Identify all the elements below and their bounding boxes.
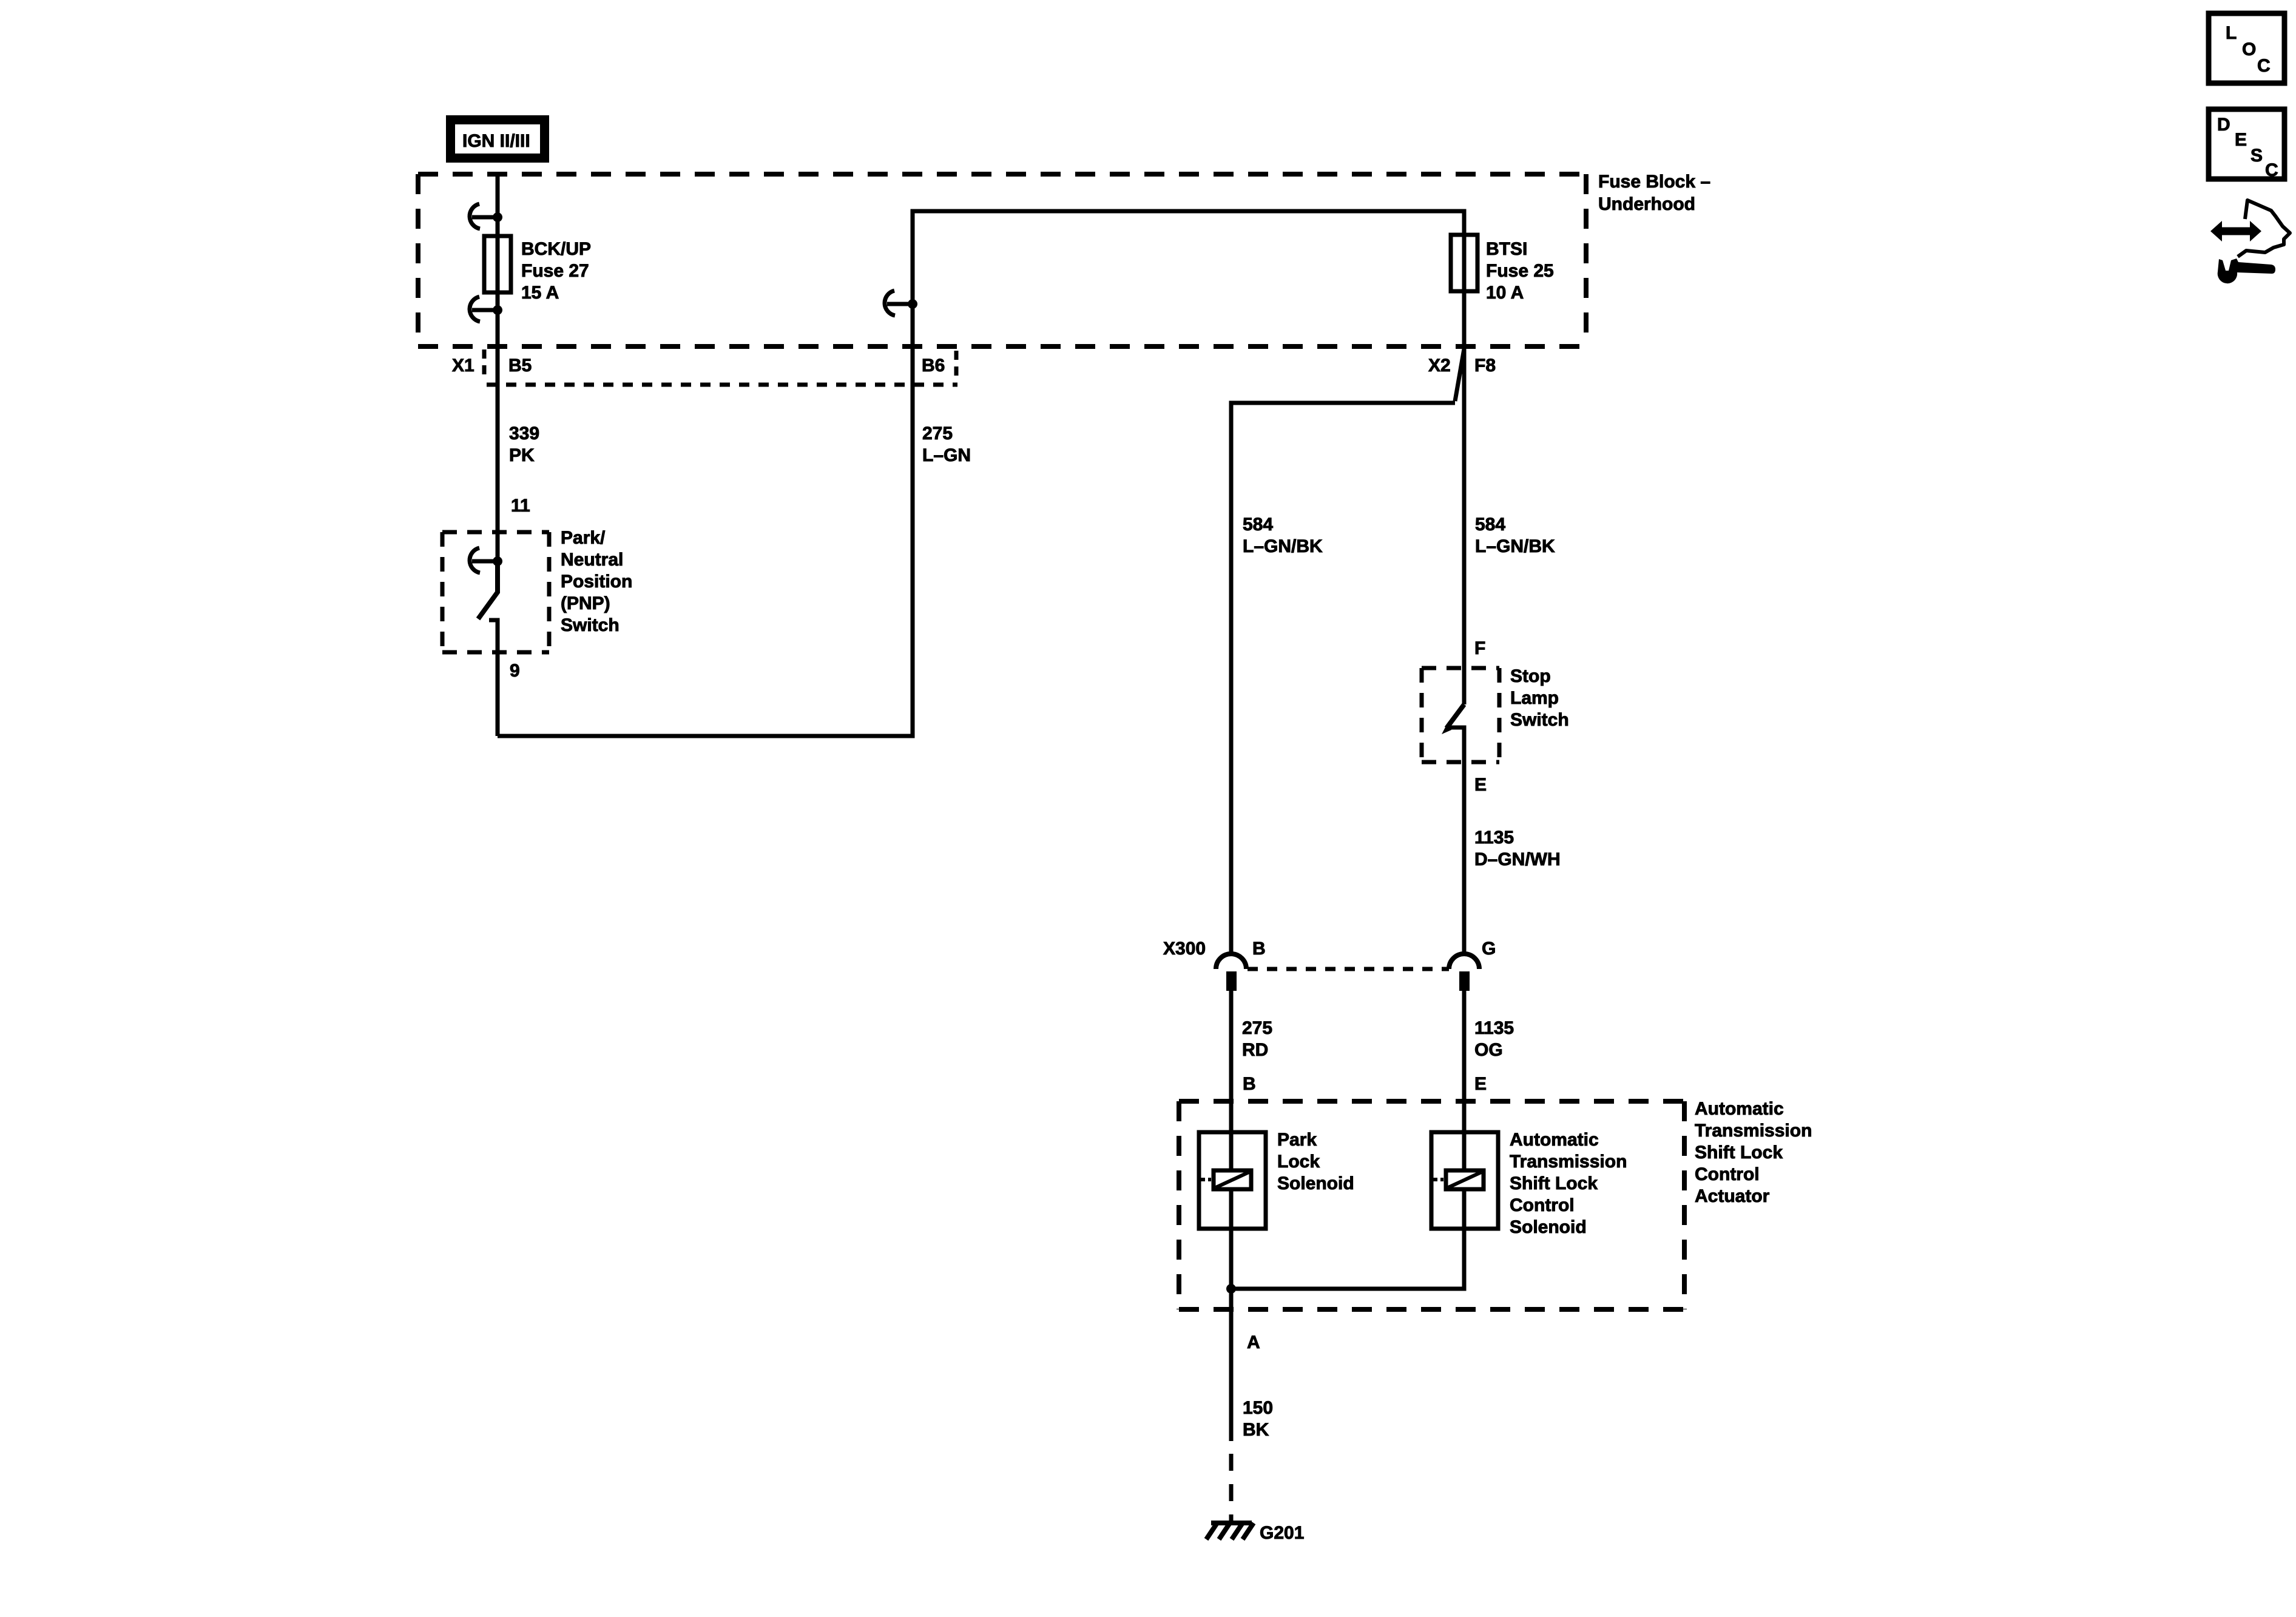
svg-text:1135: 1135	[1474, 828, 1514, 848]
X300 pin G terminal	[1459, 971, 1470, 991]
svg-text:B: B	[1243, 1074, 1256, 1094]
svg-text:Lock: Lock	[1277, 1152, 1320, 1172]
svg-text:Control: Control	[1510, 1195, 1575, 1215]
wire: PNP pin 9 across and up to B6	[498, 304, 913, 736]
wire: IGN feed down through BCK/UP fuse to X1 B5 and PNP pin 11	[496, 175, 500, 561]
svg-text:584: 584	[1475, 515, 1505, 535]
svg-text:Fuse 25: Fuse 25	[1486, 261, 1554, 281]
wire label 1135 D-GN/WH	[1474, 828, 1561, 869]
svg-text:Actuator: Actuator	[1695, 1186, 1770, 1206]
svg-text:BTSI: BTSI	[1486, 239, 1527, 259]
ground symbol G201	[1206, 1523, 1254, 1539]
svg-text:D–GN/WH: D–GN/WH	[1474, 849, 1561, 869]
svg-text:584: 584	[1243, 515, 1273, 535]
wire label 584 L-GN/BK (right)	[1475, 515, 1555, 556]
blade arrowhead	[1442, 721, 1451, 734]
wire: B6 up, across fuse block, down through BTSI fuse to X2 F8	[913, 211, 1464, 704]
fuse BTSI Fuse 25 10A	[1451, 235, 1477, 291]
splice jog below F8	[1455, 349, 1464, 401]
wire label 150 BK	[1243, 1398, 1273, 1440]
svg-text:PK: PK	[509, 445, 535, 465]
svg-text:Control: Control	[1695, 1164, 1760, 1184]
label Fuse Block - Underhood	[1598, 172, 1710, 214]
junction dot B6	[908, 299, 917, 309]
junction dot B5 top	[493, 212, 502, 222]
label Automatic Transmission Shift Lock Control Actuator	[1695, 1099, 1812, 1206]
X300 dotted line	[1248, 967, 1449, 971]
fuse BCK/UP Fuse 27 15A	[484, 236, 511, 292]
LOC nav box	[2209, 13, 2284, 83]
svg-text:C: C	[2265, 160, 2278, 180]
fuse block underhood dashed box	[418, 174, 1586, 346]
svg-text:Switch: Switch	[561, 615, 620, 635]
svg-text:E: E	[2235, 130, 2247, 150]
wire label 584 L-GN/BK (left)	[1243, 515, 1323, 556]
svg-text:D: D	[2217, 115, 2230, 135]
svg-text:Shift Lock: Shift Lock	[1695, 1143, 1783, 1163]
svg-text:L–GN/BK: L–GN/BK	[1243, 536, 1323, 556]
stop lamp switch blade	[1447, 704, 1464, 728]
connector row X1/B5-B6 dotted line	[484, 349, 957, 385]
svg-text:1135: 1135	[1474, 1018, 1514, 1038]
svg-text:339: 339	[509, 424, 539, 444]
label Park/Neutral Position (PNP) Switch	[561, 528, 632, 635]
svg-text:C: C	[2257, 56, 2271, 76]
wire: branch to X300 B	[1231, 403, 1455, 954]
terminal hook at B6	[885, 291, 909, 316]
svg-text:BCK/UP: BCK/UP	[521, 239, 591, 259]
wire: solenoids commoned to pin A	[1231, 1229, 1464, 1289]
label Stop Lamp Switch	[1510, 666, 1569, 730]
PNP switch dashed box	[442, 532, 549, 652]
X300 pin B terminal	[1226, 971, 1237, 991]
svg-text:Solenoid: Solenoid	[1510, 1217, 1587, 1237]
svg-text:X1: X1	[452, 356, 474, 376]
svg-text:Park: Park	[1277, 1130, 1317, 1150]
terminal hook above fuse 27	[470, 204, 494, 229]
DESC nav box	[2209, 109, 2284, 180]
PNP lower contact	[489, 620, 498, 736]
svg-text:Stop: Stop	[1510, 666, 1551, 686]
svg-text:Shift Lock: Shift Lock	[1510, 1173, 1598, 1193]
svg-text:L–GN: L–GN	[922, 445, 971, 465]
junction dot below fuse 27	[493, 305, 502, 315]
power label IGN II/III	[446, 115, 549, 163]
PNP switch upper terminal hook	[470, 548, 494, 573]
svg-text:IGN II/III: IGN II/III	[462, 131, 530, 151]
svg-text:Transmission: Transmission	[1510, 1152, 1627, 1172]
park lock solenoid box	[1199, 1132, 1266, 1229]
wire label 275 RD	[1242, 1018, 1272, 1060]
svg-text:E: E	[1474, 775, 1487, 795]
svg-text:B5: B5	[508, 356, 532, 376]
svg-text:B: B	[1252, 939, 1266, 959]
svg-text:Underhood: Underhood	[1598, 194, 1695, 214]
svg-text:10 A: 10 A	[1486, 283, 1524, 303]
svg-text:11: 11	[511, 496, 530, 516]
X300 connector arc B	[1216, 954, 1246, 969]
svg-text:O: O	[2242, 39, 2256, 59]
svg-text:B6: B6	[922, 356, 945, 376]
svg-text:Fuse 27: Fuse 27	[521, 261, 589, 281]
svg-text:Neutral: Neutral	[561, 550, 623, 570]
svg-text:(PNP): (PNP)	[561, 593, 610, 613]
svg-text:Automatic: Automatic	[1695, 1099, 1784, 1119]
svg-text:OG: OG	[1474, 1040, 1503, 1060]
svg-text:150: 150	[1243, 1398, 1273, 1418]
nav icon: double arrow	[2210, 221, 2261, 241]
wire label 275 L-GN	[922, 424, 971, 465]
actuator dashed box	[1179, 1101, 1684, 1309]
dashed wire to ground	[1229, 1454, 1234, 1524]
nav icon: outline shape	[2238, 200, 2290, 257]
terminal hook below fuse 27	[470, 297, 494, 322]
svg-text:Switch: Switch	[1510, 710, 1569, 730]
svg-text:BK: BK	[1243, 1420, 1269, 1440]
svg-text:G: G	[1482, 939, 1496, 959]
svg-text:E: E	[1474, 1074, 1487, 1094]
svg-text:Automatic: Automatic	[1510, 1130, 1599, 1150]
wire label 1135 OG	[1474, 1018, 1514, 1060]
svg-text:A: A	[1247, 1332, 1260, 1352]
label Park Lock Solenoid	[1277, 1130, 1354, 1193]
svg-text:S: S	[2250, 146, 2263, 166]
svg-text:F: F	[1474, 638, 1485, 658]
label Automatic Transmission Shift Lock Control Solenoid	[1510, 1130, 1627, 1237]
stop lamp switch dashed box	[1422, 668, 1499, 762]
PNP switch blade (open)	[478, 561, 498, 619]
svg-text:L: L	[2226, 23, 2237, 43]
wire label 339 PK	[509, 424, 539, 465]
svg-text:275: 275	[922, 424, 953, 444]
svg-text:Park/: Park/	[561, 528, 606, 548]
svg-text:15 A: 15 A	[521, 283, 559, 303]
svg-text:Fuse Block –: Fuse Block –	[1598, 172, 1710, 192]
svg-text:G201: G201	[1260, 1523, 1304, 1543]
svg-text:X300: X300	[1163, 939, 1206, 959]
wire: X300 B down to park lock solenoid	[1229, 991, 1234, 1132]
X300 connector arc G	[1449, 954, 1479, 969]
svg-text:L–GN/BK: L–GN/BK	[1475, 536, 1555, 556]
shift lock control solenoid box	[1431, 1132, 1498, 1229]
svg-text:Lamp: Lamp	[1510, 688, 1559, 708]
svg-text:9: 9	[510, 661, 520, 681]
wire: X300 G down to shift lock control solenoid	[1462, 991, 1467, 1132]
svg-text:Position: Position	[561, 572, 632, 592]
nav icon: wrench	[2218, 258, 2275, 283]
junction dot at solenoid common	[1226, 1284, 1236, 1294]
PNP junction dot	[493, 556, 502, 566]
svg-text:F8: F8	[1474, 356, 1496, 376]
svg-text:RD: RD	[1242, 1040, 1268, 1060]
svg-text:Transmission: Transmission	[1695, 1121, 1812, 1141]
svg-text:275: 275	[1242, 1018, 1272, 1038]
svg-text:X2: X2	[1428, 356, 1451, 376]
svg-text:Solenoid: Solenoid	[1277, 1173, 1354, 1193]
stop lamp lower contact	[1450, 727, 1464, 955]
